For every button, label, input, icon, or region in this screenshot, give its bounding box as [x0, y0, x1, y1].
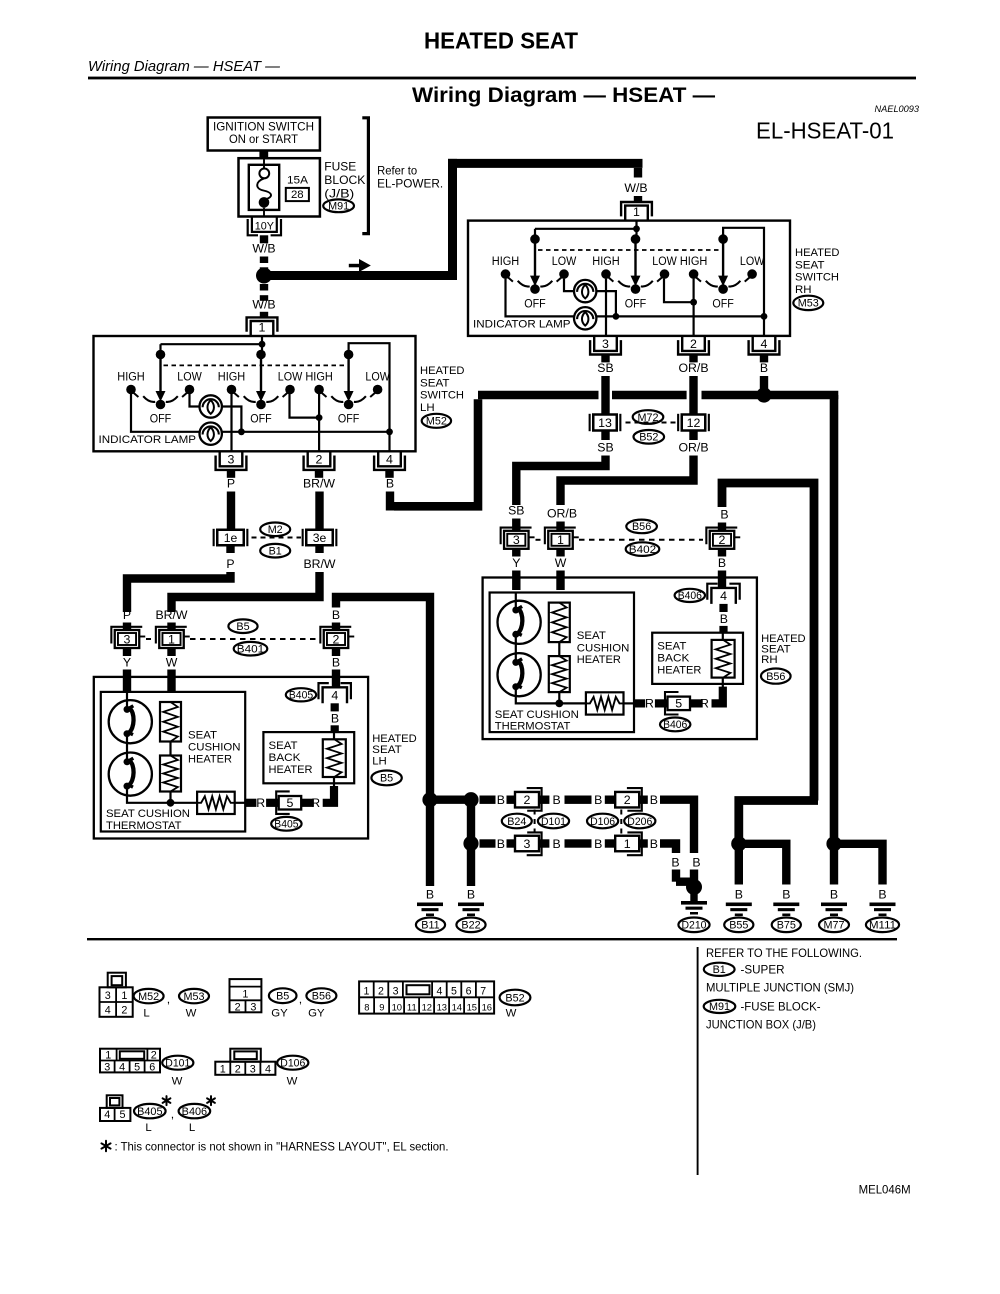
- svg-text:GY: GY: [308, 1008, 325, 1020]
- svg-text:4: 4: [265, 1063, 271, 1075]
- svg-text:THERMOSTAT: THERMOSTAT: [106, 820, 182, 832]
- legend oval D106: [277, 1056, 308, 1070]
- svg-text:B: B: [718, 556, 726, 570]
- label OR/B below 12: [689, 431, 697, 441]
- svg-text:BLOCK: BLOCK: [324, 173, 365, 187]
- switch LH pole 1 arrow: [159, 355, 161, 393]
- switch RH indicator lamp 1: [574, 280, 596, 302]
- label W below B401: [167, 648, 175, 656]
- svg-text:B55: B55: [729, 920, 748, 932]
- svg-text:BACK: BACK: [657, 653, 689, 665]
- svg-text:B: B: [650, 793, 658, 807]
- wire stub row y843.5 c: [539, 839, 549, 847]
- switch RH pole 2 HIGH contact: [601, 269, 611, 279]
- switch LH pin 4 connector: [378, 451, 401, 466]
- wire P LH pin 3 down: [227, 492, 235, 531]
- connector 5 RH: [655, 699, 667, 707]
- svg-text:LOW: LOW: [278, 372, 303, 384]
- svg-text:OFF: OFF: [524, 298, 546, 310]
- svg-text:3: 3: [105, 990, 111, 1002]
- svg-text:LOW: LOW: [552, 256, 577, 268]
- svg-text:1: 1: [121, 990, 127, 1002]
- connector oval B5 seat: [371, 771, 401, 786]
- svg-text:B: B: [594, 793, 602, 807]
- heater to junction wire LH: [169, 792, 171, 803]
- svg-text:SB: SB: [597, 441, 613, 455]
- wire stub row y843.5 b: [507, 839, 516, 847]
- wire segs into D210 node: [672, 870, 680, 882]
- svg-text:HEATER: HEATER: [188, 754, 232, 766]
- svg-text:OR/B: OR/B: [678, 441, 708, 455]
- switch RH pin 3 connector: [594, 336, 617, 351]
- wire W into LH seat: [167, 670, 175, 692]
- dashed mating line B56-B402: [536, 539, 542, 541]
- svg-text:ON or START: ON or START: [229, 132, 299, 146]
- thermostat to junction wire LH: [127, 786, 197, 803]
- svg-text:L: L: [189, 1122, 195, 1134]
- svg-text:10Y: 10Y: [255, 220, 274, 232]
- svg-text:B22: B22: [461, 920, 480, 932]
- svg-text:R: R: [256, 796, 265, 810]
- svg-text:HEATER: HEATER: [577, 654, 621, 666]
- svg-text:L: L: [145, 1122, 151, 1134]
- svg-text:EL-POWER.: EL-POWER.: [377, 176, 443, 190]
- switch RH indicator lamp 2: [574, 307, 596, 329]
- svg-text:BR/W: BR/W: [303, 557, 335, 571]
- svg-text:B: B: [552, 837, 560, 851]
- fuse block box M91: [239, 158, 320, 216]
- svg-text:HIGH: HIGH: [117, 372, 145, 384]
- connector B401 pin 3: [115, 630, 140, 648]
- ground B75: [773, 903, 799, 907]
- svg-text:W: W: [172, 1076, 183, 1088]
- ground oval B11: [416, 918, 445, 933]
- heater to junction wire RH: [558, 692, 560, 703]
- svg-text:HIGH: HIGH: [492, 256, 520, 268]
- connector oval M72: [633, 410, 664, 424]
- connector 2 bottom row y799.7: [527, 788, 542, 811]
- svg-text:B56: B56: [312, 991, 331, 1003]
- connector oval M53 switch: [793, 296, 823, 310]
- svg-text:B: B: [497, 793, 505, 807]
- svg-text:BACK: BACK: [269, 752, 301, 764]
- connector oval B56 inline: [626, 520, 657, 534]
- connector B406 pin 4 RH: [711, 588, 735, 604]
- switch RH pole 2 arrow: [634, 239, 636, 277]
- svg-text:4: 4: [761, 337, 768, 351]
- header rule: [88, 77, 916, 80]
- svg-text:4: 4: [386, 453, 393, 467]
- wire W into RH seat: [556, 571, 564, 591]
- wire BR/W corner to B401: [172, 572, 320, 612]
- svg-text:SB: SB: [508, 504, 524, 518]
- node B bus at RH pin 4: [756, 387, 771, 402]
- svg-text:M77: M77: [823, 920, 844, 932]
- svg-text:D210: D210: [682, 920, 707, 932]
- power flow arrow: [349, 264, 361, 268]
- svg-text:SEAT CUSHION: SEAT CUSHION: [495, 709, 579, 721]
- svg-text:9: 9: [379, 1002, 384, 1013]
- svg-text:2: 2: [121, 1005, 127, 1017]
- svg-text:HEATED: HEATED: [795, 247, 840, 259]
- wire B55 branch to B75: [739, 844, 787, 885]
- svg-text:B: B: [467, 888, 475, 902]
- svg-text:B: B: [552, 793, 560, 807]
- svg-text:4: 4: [119, 1061, 125, 1073]
- seat cushion thermostat circle 2 LH: [126, 734, 128, 762]
- svg-text:B405: B405: [137, 1106, 162, 1118]
- heated seat LH outer box: [94, 677, 368, 839]
- svg-text:CUSHION: CUSHION: [577, 642, 630, 654]
- node B22 junction row1: [463, 792, 478, 807]
- svg-text:W: W: [506, 1008, 517, 1020]
- connector oval B52 inline: [634, 430, 665, 444]
- node B22 junction row2: [463, 836, 478, 851]
- svg-text:EL-HSEAT-01: EL-HSEAT-01: [756, 118, 894, 144]
- legend oval M53: [179, 989, 209, 1003]
- svg-text:5: 5: [119, 1109, 125, 1121]
- svg-text:28: 28: [291, 189, 304, 201]
- svg-text:LOW: LOW: [177, 372, 202, 384]
- switch LH HIGH1 to lamp2 bottom wire: [131, 394, 200, 432]
- switch RH LOW1 to lamp1 wire: [564, 279, 574, 292]
- svg-text:2: 2: [235, 1002, 241, 1014]
- switch RH lamp1 to bottom wire: [596, 291, 616, 316]
- svg-text:BR/W: BR/W: [303, 477, 335, 491]
- wire B B401 pin2 up corner to bottom riser: [332, 623, 340, 631]
- wire BR/W LH pin 2 down: [315, 492, 323, 531]
- switch RH HIGH1 to lamp2 bottom wire: [506, 279, 575, 317]
- switch LH mechanical link dashed: [164, 364, 345, 366]
- svg-text:15A: 15A: [287, 175, 308, 187]
- svg-text:5: 5: [675, 697, 682, 711]
- svg-text:GY: GY: [271, 1008, 288, 1020]
- ground oval M111: [866, 918, 899, 933]
- fuse 15A symbol: [249, 165, 279, 210]
- svg-text:SEAT: SEAT: [657, 641, 686, 653]
- svg-text:3e: 3e: [313, 531, 327, 545]
- svg-text:LH: LH: [420, 402, 435, 414]
- svg-text:2: 2: [316, 453, 323, 467]
- svg-text:SEAT: SEAT: [795, 259, 825, 271]
- wire B B4054 to seat back LH: [331, 703, 339, 711]
- wire M77 branch to M111: [834, 844, 883, 885]
- svg-text:SWITCH: SWITCH: [420, 390, 464, 402]
- dashed mating line B24-D101: [534, 810, 536, 836]
- svg-text:B405: B405: [289, 690, 313, 702]
- svg-text:2: 2: [235, 1063, 241, 1075]
- svg-text:Y: Y: [123, 656, 131, 670]
- connector oval M2: [260, 523, 290, 537]
- svg-text:B24: B24: [507, 816, 526, 828]
- svg-text:SEAT: SEAT: [420, 377, 450, 389]
- ground B55: [726, 903, 752, 907]
- label P below 1e: [226, 545, 234, 553]
- svg-text:SB: SB: [597, 361, 613, 375]
- svg-text:B: B: [426, 888, 434, 902]
- switch LH pole 2 OFF contact: [256, 400, 266, 410]
- wire B RH pin 4 to bus: [760, 376, 768, 391]
- label W below B402: [556, 549, 564, 557]
- legend connector face D106: [230, 1049, 260, 1062]
- dashed mating line B5-B401: [146, 638, 152, 640]
- svg-text:B: B: [671, 856, 679, 870]
- legend oval B52: [500, 990, 531, 1006]
- svg-text:1: 1: [259, 321, 266, 335]
- seat cushion thermostat circle 1 RH: [515, 593, 517, 610]
- svg-text:B52: B52: [639, 432, 658, 444]
- svg-text:B75: B75: [777, 920, 796, 932]
- switch LH pole 3 HIGH contact: [314, 385, 324, 395]
- svg-text:B: B: [692, 856, 700, 870]
- label BR/W below 3e: [315, 545, 323, 553]
- switch RH LOW2 HIGH3 to pin 2 wire: [664, 279, 694, 303]
- svg-text:D206: D206: [627, 816, 652, 828]
- ground oval B22: [456, 918, 485, 933]
- switch LH pole 1 pivot: [156, 350, 166, 360]
- svg-text:4: 4: [436, 986, 442, 998]
- connector oval D101 inline: [538, 814, 569, 829]
- wire W/B fuse to node: [260, 235, 268, 243]
- switch LH pole 1 HIGH contact: [126, 385, 136, 395]
- svg-text:B: B: [878, 888, 886, 902]
- legend oval B5: [269, 988, 297, 1003]
- svg-text:12: 12: [687, 416, 701, 430]
- wire SB RH pin 3 down: [601, 376, 609, 415]
- svg-text:M91: M91: [709, 1001, 730, 1013]
- svg-text:B1: B1: [713, 964, 726, 976]
- svg-text:,: ,: [171, 1107, 174, 1121]
- connector B401 pin 1: [159, 630, 184, 648]
- switch RH bottom lamp return wire: [596, 315, 764, 317]
- svg-text:B: B: [760, 361, 768, 375]
- svg-text:P: P: [123, 608, 131, 622]
- svg-text:W/B: W/B: [624, 181, 647, 195]
- wire stub row y799.7 e: [639, 796, 648, 804]
- svg-text:BR/W: BR/W: [155, 608, 187, 622]
- svg-text:OFF: OFF: [338, 414, 360, 426]
- wire stub row y799.7 b: [507, 796, 516, 804]
- svg-text:B: B: [720, 612, 728, 626]
- svg-text:HEATER: HEATER: [657, 664, 701, 676]
- svg-text:M2: M2: [268, 524, 283, 536]
- dashed mating line M72-B52: [626, 422, 679, 424]
- connector B402 pin 1: [548, 531, 573, 549]
- seat cushion heater resistor 2 LH: [169, 742, 171, 756]
- wire W/B down to RH switch pin 1: [634, 168, 642, 178]
- svg-text:LOW: LOW: [365, 372, 390, 384]
- wire stub row y799.7 a: [480, 796, 496, 804]
- svg-text:SEAT CUSHION: SEAT CUSHION: [106, 808, 190, 820]
- svg-text:,: ,: [167, 992, 170, 1006]
- switch RH pole 1 HIGH contact: [501, 269, 511, 279]
- seat cushion thermostat box LH: [197, 792, 235, 814]
- switch RH mechanical link dashed: [538, 249, 719, 251]
- svg-text:M91: M91: [328, 201, 349, 213]
- svg-text:B: B: [386, 477, 394, 491]
- switch RH pole 3 feed to B: [723, 228, 764, 317]
- svg-text:P: P: [227, 477, 235, 491]
- switch LH pole 3 arrow: [347, 355, 349, 393]
- switch LH pole 2 pivot: [256, 350, 266, 360]
- switch LH pole 3 pivot: [344, 350, 354, 360]
- seat cushion thermostat circle 2 RH: [515, 634, 517, 662]
- switch LH pin 4 wire: [388, 432, 390, 452]
- seat back heater resistor RH: [712, 640, 735, 678]
- legend oval M52: [134, 989, 164, 1003]
- svg-text:1: 1: [105, 1049, 111, 1061]
- svg-text:M53: M53: [183, 991, 204, 1003]
- legend connector face B52: [359, 981, 494, 1013]
- switch RH pin 4 wire: [763, 316, 765, 336]
- svg-text:MULTIPLE JUNCTION (SMJ): MULTIPLE JUNCTION (SMJ): [706, 981, 854, 995]
- wire W/B dashes to node: [260, 257, 268, 264]
- seat back heater resistor LH: [323, 739, 346, 777]
- node M77 branch: [826, 836, 841, 851]
- switch LH pole 2 HIGH contact: [227, 385, 237, 395]
- svg-text:: This connector is not shown: : This connector is not shown in "HARNES…: [115, 1139, 449, 1153]
- connector oval B405 below 5 LH: [271, 817, 301, 831]
- svg-text:4: 4: [105, 1005, 111, 1017]
- wire OR/B corner to B402: [561, 456, 694, 506]
- wire row1 between nodes: [430, 796, 471, 804]
- svg-text:LOW: LOW: [652, 256, 677, 268]
- wire stub row y843.5 e: [639, 839, 648, 847]
- svg-text:OFF: OFF: [150, 414, 172, 426]
- legend oval B56: [306, 988, 336, 1003]
- svg-text:SEAT: SEAT: [577, 630, 606, 642]
- svg-text:B52: B52: [505, 992, 524, 1004]
- refer to EL-POWER bracket: [362, 118, 368, 234]
- svg-text:HIGH: HIGH: [218, 372, 246, 384]
- connector oval B402 inline: [626, 542, 660, 556]
- legend connector face B405 B406: [107, 1095, 123, 1108]
- svg-text:LOW: LOW: [740, 256, 765, 268]
- switch RH pin 2 connector: [682, 336, 705, 351]
- svg-text:HIGH: HIGH: [305, 372, 333, 384]
- svg-text:3: 3: [513, 533, 520, 547]
- svg-text:JUNCTION BOX (J/B): JUNCTION BOX (J/B): [706, 1018, 816, 1032]
- wire stub row y799.7 d: [605, 796, 615, 804]
- svg-text:L: L: [143, 1008, 149, 1020]
- legend oval M91: [704, 1000, 736, 1013]
- wire ignition to fuse block: [259, 151, 268, 159]
- connector oval M52 switch: [422, 414, 451, 428]
- label Y below B401: [123, 648, 131, 656]
- svg-text:OFF: OFF: [625, 298, 647, 310]
- junction node RH seat: [555, 700, 563, 708]
- switch RH pole 3 LOW contact: [747, 269, 757, 279]
- svg-text:W: W: [287, 1076, 298, 1088]
- connector 1e inline M2: [217, 530, 244, 546]
- svg-text:SEAT: SEAT: [269, 740, 298, 752]
- svg-text:INDICATOR LAMP: INDICATOR LAMP: [473, 319, 571, 331]
- svg-text:2: 2: [690, 337, 697, 351]
- switch RH pin 1 connector: [625, 206, 648, 221]
- seat cushion thermostat circle 1 LH: [126, 692, 128, 709]
- wire B bus horizontal: [478, 391, 599, 400]
- svg-text:B5: B5: [236, 621, 249, 633]
- svg-text:D106: D106: [280, 1058, 305, 1070]
- svg-text:RH: RH: [795, 284, 811, 296]
- wire row2 corner to D210: [660, 844, 676, 854]
- legend star B406: [210, 1096, 212, 1105]
- svg-text:HEATED: HEATED: [420, 365, 465, 377]
- connector B402 pin 2: [710, 531, 735, 549]
- connector oval B406 below 5 RH: [660, 718, 690, 732]
- svg-text:OR/B: OR/B: [678, 361, 708, 375]
- switch LH pin 1 entry wire: [261, 336, 263, 344]
- switch RH pole 3 HIGH contact: [689, 269, 699, 279]
- legend divider line: [697, 947, 699, 1175]
- switch LH pin stubs: [227, 470, 235, 478]
- wire stub row y843.5 d: [605, 839, 615, 847]
- connector 2 bottom row y799.7: [627, 788, 642, 811]
- seat back heater box RH: [652, 633, 743, 684]
- switch RH pole 2 LOW contact: [660, 269, 670, 279]
- wire B bus right riser to grounds: [830, 395, 839, 844]
- svg-text:B: B: [331, 711, 339, 725]
- svg-text:1e: 1e: [224, 531, 238, 545]
- switch LH pole 3 OFF contact: [344, 400, 354, 410]
- thermostat box to R wire RH: [624, 702, 635, 704]
- label Y below B402: [512, 549, 520, 557]
- svg-text:2: 2: [719, 533, 726, 547]
- dashed mating line D106-D206: [620, 810, 622, 836]
- heated seat RH outer box: [483, 578, 757, 740]
- switch RH pole 1 LOW contact: [559, 269, 569, 279]
- switch LH pin 3 connector: [220, 451, 243, 466]
- svg-text:11: 11: [407, 1002, 417, 1013]
- svg-text:Y: Y: [512, 556, 520, 570]
- switch LH lamp1 to bottom wire: [222, 407, 242, 432]
- wire SB corner to B402: [516, 456, 605, 506]
- wire B B4064 to seat back RH: [719, 604, 727, 612]
- svg-text:M52: M52: [138, 991, 159, 1003]
- switch RH pole 2 pivot: [631, 234, 641, 244]
- switch LH pole 1 OFF contact: [156, 400, 166, 410]
- wire B into B405 pin 4: [332, 670, 340, 688]
- svg-text:THERMOSTAT: THERMOSTAT: [495, 721, 571, 733]
- svg-text:B: B: [594, 837, 602, 851]
- connector B401 pin 2: [324, 630, 349, 648]
- wire B into B406 pin 4: [718, 571, 726, 588]
- svg-text:B5: B5: [380, 773, 393, 785]
- switch LH pin 2 connector: [308, 451, 331, 466]
- seat cushion heater resistor 2 RH: [558, 642, 560, 656]
- ground oval D210: [678, 918, 709, 933]
- wire stub row y799.7 c: [539, 796, 549, 804]
- svg-text:7: 7: [480, 986, 486, 998]
- switch LH feed line: [161, 343, 263, 345]
- connector 1 bottom row y843.5: [627, 832, 642, 855]
- wire B LH pin 4 down: [386, 492, 394, 511]
- switch LH indicator lamp 2: [200, 423, 222, 445]
- connector 13 inline M72: [593, 415, 617, 431]
- switch RH pole 1 arrow: [534, 239, 536, 277]
- svg-text:B5: B5: [276, 991, 289, 1003]
- wire power top run: [448, 159, 643, 168]
- switch RH pole 3 OFF contact: [718, 284, 728, 294]
- label B below B401 pin 2: [332, 648, 340, 656]
- svg-text:1: 1: [242, 989, 248, 1001]
- svg-text:3: 3: [104, 1061, 110, 1073]
- svg-text:W: W: [555, 556, 567, 570]
- svg-text:5: 5: [286, 796, 293, 810]
- connector 5 LH: [266, 799, 278, 807]
- svg-text:B1: B1: [269, 546, 282, 558]
- svg-text:1: 1: [624, 837, 631, 851]
